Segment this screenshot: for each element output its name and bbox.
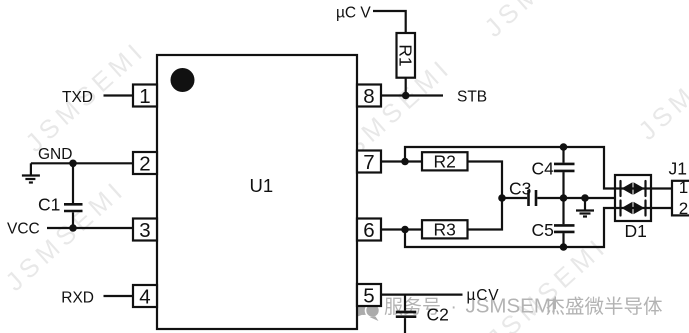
resistor R2 bbox=[422, 152, 468, 170]
junction pin 6 bbox=[401, 226, 409, 234]
svg-text:R3: R3 bbox=[434, 220, 456, 240]
banner watermark: wechat icon bbox=[352, 293, 380, 321]
resistor R3 bbox=[422, 220, 468, 238]
pin 5 bbox=[357, 284, 381, 306]
wire pin 7 to R2 bbox=[381, 160, 422, 162]
capacitor C3 bbox=[502, 190, 564, 206]
junction VCC/C1 bbox=[69, 224, 77, 232]
svg-text:6: 6 bbox=[363, 219, 374, 242]
wire R3 to C3 node bbox=[468, 198, 503, 230]
ground symbol right bbox=[576, 198, 594, 217]
svg-text:D1: D1 bbox=[625, 221, 647, 241]
svg-text:TXD: TXD bbox=[62, 89, 93, 106]
wire pin7 node up to top rail and over to D1 bbox=[405, 147, 616, 189]
svg-text:2: 2 bbox=[139, 153, 150, 176]
wire mid node to D1 bbox=[564, 197, 622, 199]
U1 pin-1 orientation dot bbox=[171, 68, 195, 92]
resistor R1 bbox=[397, 33, 416, 78]
pin 8 bbox=[357, 85, 381, 107]
pin 2 bbox=[133, 152, 157, 174]
svg-text:C4: C4 bbox=[532, 158, 555, 178]
capacitor C4 bbox=[554, 147, 575, 198]
svg-text:R2: R2 bbox=[434, 152, 456, 172]
svg-text:µCV: µCV bbox=[467, 287, 500, 304]
wire R2 to C3 node bbox=[468, 162, 503, 199]
svg-text:RXD: RXD bbox=[61, 289, 94, 306]
IC U1 body bbox=[157, 55, 357, 329]
svg-text:C2: C2 bbox=[427, 305, 449, 325]
pin 4 bbox=[133, 285, 157, 307]
wire pin 6 to R3 bbox=[381, 228, 422, 230]
wire R1 to pin 8 bbox=[405, 78, 407, 96]
banner watermark: gray text bbox=[384, 295, 663, 319]
svg-text:C1: C1 bbox=[38, 195, 60, 215]
svg-text:7: 7 bbox=[363, 151, 374, 174]
wire uCV to R1 bbox=[373, 11, 406, 33]
svg-text:5: 5 bbox=[363, 285, 374, 308]
svg-text:STB: STB bbox=[457, 89, 487, 106]
svg-text:8: 8 bbox=[363, 85, 374, 108]
wire RXD to pin 4 bbox=[104, 295, 134, 297]
junction R2/R3/C3 node bbox=[498, 194, 506, 202]
diode array D1 bbox=[615, 175, 651, 221]
wire pin6 node down to bottom rail and over to D1 bbox=[405, 208, 616, 247]
capacitor C5 bbox=[554, 198, 575, 247]
svg-text:C5: C5 bbox=[532, 220, 554, 240]
svg-text:4: 4 bbox=[139, 286, 150, 309]
svg-text:1: 1 bbox=[679, 178, 688, 197]
svg-text:GND: GND bbox=[38, 146, 72, 163]
junction C4 top rail bbox=[560, 143, 568, 151]
junction gnd tap bbox=[581, 194, 589, 202]
junction GND/C1 bbox=[69, 160, 77, 168]
junction C5 bottom rail bbox=[560, 243, 568, 251]
wire D1 to J1 pin2 bbox=[651, 207, 672, 209]
pin 7 bbox=[357, 151, 381, 173]
svg-text:R1: R1 bbox=[395, 44, 415, 66]
svg-text:VCC: VCC bbox=[7, 221, 40, 238]
connector J1 bbox=[672, 181, 689, 216]
wire GND net bbox=[31, 162, 133, 164]
wire pin 5 to uCV/C2 bbox=[381, 294, 463, 296]
pin 6 bbox=[357, 219, 381, 241]
svg-text:µC V: µC V bbox=[336, 4, 371, 21]
junction C3/C4/C5/gnd bbox=[560, 194, 568, 202]
svg-text:3: 3 bbox=[139, 219, 150, 242]
svg-text:·: · bbox=[451, 297, 457, 318]
pin 1 bbox=[133, 85, 157, 107]
capacitor C1 bbox=[64, 163, 83, 228]
svg-text:1: 1 bbox=[139, 85, 150, 108]
svg-text:U1: U1 bbox=[250, 175, 274, 196]
ground symbol left bbox=[22, 163, 40, 182]
junction pin 7 bbox=[401, 158, 409, 166]
svg-text:J1: J1 bbox=[669, 158, 687, 178]
svg-text:2: 2 bbox=[679, 199, 688, 218]
capacitor C2 bbox=[396, 295, 417, 333]
svg-text:杰盛微半导体: 杰盛微半导体 bbox=[546, 296, 663, 318]
wire VCC net bbox=[47, 227, 133, 229]
wire pin 8 to STB bbox=[381, 94, 443, 96]
junction R1/STB bbox=[402, 92, 410, 100]
wire TXD to pin 1 bbox=[104, 94, 134, 96]
pin 3 bbox=[133, 219, 157, 241]
svg-text:C3: C3 bbox=[509, 178, 531, 198]
wire D1 to J1 pin1 bbox=[651, 187, 672, 189]
